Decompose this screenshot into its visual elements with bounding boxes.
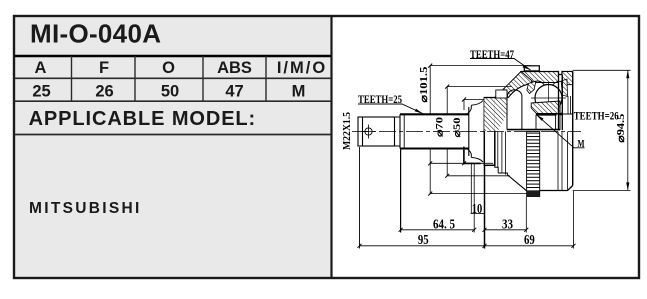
arrow dia94.5 bottom xyxy=(626,182,629,190)
svg-text:⌀70: ⌀70 xyxy=(436,117,446,137)
ball crosshair xyxy=(531,82,566,114)
ext line 64.5 right xyxy=(473,163,475,232)
spline runout xyxy=(403,114,405,148)
svg-text:APPLICABLE MODEL:: APPLICABLE MODEL: xyxy=(29,108,257,130)
dia94.5 extension top xyxy=(573,69,631,71)
cage strip left of ball xyxy=(527,81,536,93)
svg-text:33: 33 xyxy=(502,217,513,232)
tick 64.5 ends xyxy=(399,228,477,232)
svg-text:10: 10 xyxy=(472,202,483,217)
dia94.5 extension bottom xyxy=(573,189,631,191)
svg-text:TEETH=26: TEETH=26 xyxy=(574,111,619,123)
header/value row separator xyxy=(14,77,331,79)
svg-text:ABS: ABS xyxy=(217,59,252,77)
dim dia50 bottom horizontal xyxy=(430,162,493,164)
ext line 95 left xyxy=(359,147,361,249)
ABS band dark bottom xyxy=(527,191,540,197)
dim line 69 xyxy=(485,245,574,247)
center hole cross xyxy=(362,125,376,139)
housing outer right notch verticals xyxy=(559,75,563,131)
cage verticals right of ball xyxy=(568,96,571,114)
center hole mark circle xyxy=(365,128,372,135)
dim dia101.5 top horizontal xyxy=(430,65,531,67)
spline right face xyxy=(468,107,470,156)
track groove arcs in top band xyxy=(533,81,564,85)
arrowhead teeth47 xyxy=(522,65,530,70)
divider between table and drawing xyxy=(330,16,332,278)
dim line 95 xyxy=(360,245,485,247)
dim dia70 top horizontal xyxy=(447,86,511,88)
boot groove flare bottom xyxy=(466,148,471,157)
svg-text:O: O xyxy=(162,59,175,77)
boot groove disc xyxy=(484,98,495,166)
ABS tone ring striped band xyxy=(527,132,540,197)
bell bottom edge xyxy=(540,186,573,191)
svg-text:⌀101.5: ⌀101.5 xyxy=(419,67,430,103)
svg-text:95: 95 xyxy=(418,233,429,248)
bell curve to ABS ring xyxy=(507,175,526,191)
arrowhead teeth26 xyxy=(555,112,563,115)
shoulder step block on disc xyxy=(496,90,507,98)
applicable row bottom separator xyxy=(14,134,331,136)
dim dia70 vertical line xyxy=(446,87,448,176)
ext line 69 right xyxy=(573,191,575,249)
centerline xyxy=(352,131,581,133)
dim dia101.5 bottom horizontal xyxy=(430,193,527,195)
housing right rim hatched xyxy=(562,72,573,85)
dim dia101.5 vertical line xyxy=(429,66,431,194)
dim 10 text underline xyxy=(471,213,484,215)
tick 69 ends xyxy=(572,244,576,248)
boot groove notch bottom thick xyxy=(464,147,481,164)
tick dia50 bottom crossing xyxy=(428,98,466,166)
external bottom: disc bottom step xyxy=(495,165,508,175)
inner race stub dome xyxy=(507,90,522,130)
svg-text:I/M/O: I/M/O xyxy=(277,59,327,77)
stub shaft verticals below race xyxy=(536,101,560,130)
bottom half circlip verticals xyxy=(558,132,568,191)
neck between thread and spline xyxy=(395,117,401,146)
arrowhead M leader xyxy=(537,115,544,121)
dia94.5 dim vertical with arrows xyxy=(627,70,629,190)
svg-text:MITSUBISHI: MITSUBISHI xyxy=(29,200,142,217)
column separator 2 xyxy=(134,56,136,101)
column separator 4 xyxy=(265,56,267,101)
svg-text:⌀94.5: ⌀94.5 xyxy=(616,114,627,143)
dim line 64.5 xyxy=(401,229,475,231)
svg-text:M22X1.5: M22X1.5 xyxy=(342,112,353,150)
svg-text:47: 47 xyxy=(225,82,243,100)
value row bottom separator xyxy=(14,100,331,102)
boot groove flare top xyxy=(466,105,471,114)
cage strip right of ball xyxy=(561,79,567,97)
svg-text:50: 50 xyxy=(161,82,179,100)
thread runout line xyxy=(362,117,364,146)
svg-text:TEETH=47: TEETH=47 xyxy=(470,49,514,61)
dim dia50 vertical line xyxy=(463,100,465,164)
table background panel xyxy=(14,16,331,278)
external verticals on bell left xyxy=(498,132,506,175)
svg-text:26: 26 xyxy=(95,82,113,100)
ext line common 484.5 xyxy=(484,166,486,249)
spline shaft left face xyxy=(399,114,401,148)
tick dia70 ends xyxy=(445,85,449,178)
leader TEETH=47 xyxy=(470,59,531,71)
threaded stub M22 body xyxy=(358,117,395,146)
housing outer top edge xyxy=(521,72,573,75)
track groove arc left xyxy=(508,84,531,98)
svg-text:TEETH=25: TEETH=25 xyxy=(358,94,402,106)
svg-text:MI-O-040A: MI-O-040A xyxy=(30,19,161,49)
dim dia70 bottom horizontal xyxy=(447,175,510,177)
column separator 3 xyxy=(202,56,204,101)
arrowhead teeth25 xyxy=(415,109,423,114)
svg-text:M: M xyxy=(578,138,585,150)
tick 95 ends xyxy=(358,244,487,248)
housing top band hatched xyxy=(521,72,559,83)
arrow dia94.5 top xyxy=(626,70,629,78)
dim dia50 top horizontal xyxy=(464,99,484,101)
leader TEETH=26 xyxy=(555,113,574,115)
ext line 64.5 left xyxy=(400,150,402,233)
dim line 33 xyxy=(485,229,527,231)
groove floor to disc top xyxy=(471,101,483,163)
svg-text:M: M xyxy=(292,82,306,100)
ball circle xyxy=(535,85,562,112)
svg-text:F: F xyxy=(99,59,109,77)
bore line above centerline xyxy=(507,129,560,131)
ext line 10 left xyxy=(470,163,472,213)
housing lower-left inner hatch xyxy=(495,98,507,131)
disc hatch upper xyxy=(484,98,495,131)
svg-text:25: 25 xyxy=(32,82,50,100)
housing right face xyxy=(572,72,574,186)
leader M xyxy=(537,115,585,148)
title row separator (thick) xyxy=(14,55,331,58)
leader TEETH=25 xyxy=(358,104,423,114)
tick dia101.5 ends xyxy=(428,64,432,196)
inner race bottom thick edge xyxy=(536,114,557,116)
ext line 33 right xyxy=(525,197,527,233)
svg-text:64. 5: 64. 5 xyxy=(433,217,455,232)
housing left wall hatched band xyxy=(495,72,535,98)
tick 33 ends xyxy=(483,228,529,232)
ABS ring section rect top xyxy=(524,66,539,71)
column separator 1 xyxy=(71,56,73,101)
spline shaft TEETH=25 body xyxy=(400,114,469,148)
svg-text:69: 69 xyxy=(524,233,535,248)
svg-text:⌀50: ⌀50 xyxy=(453,117,463,137)
svg-text:A: A xyxy=(35,59,47,77)
inner race hatched block under ball xyxy=(531,101,560,114)
